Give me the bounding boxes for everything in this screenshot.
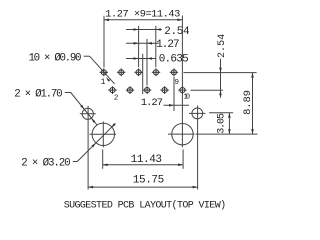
svg-text:1.27 ×9=11.43: 1.27 ×9=11.43 bbox=[105, 9, 180, 21]
svg-text:11.43: 11.43 bbox=[131, 154, 162, 166]
svg-text:10: 10 bbox=[183, 94, 190, 102]
svg-text:SUGGESTED PCB LAYOUT(TOP VIEW): SUGGESTED PCB LAYOUT(TOP VIEW) bbox=[64, 200, 226, 212]
svg-text:1.27: 1.27 bbox=[141, 97, 163, 109]
svg-text:0.635: 0.635 bbox=[159, 53, 189, 65]
svg-text:1: 1 bbox=[101, 78, 106, 87]
svg-text:2 × Ø1.70: 2 × Ø1.70 bbox=[14, 88, 62, 100]
svg-text:10 × Ø0.90: 10 × Ø0.90 bbox=[29, 53, 82, 65]
svg-text:1.27: 1.27 bbox=[156, 39, 179, 51]
svg-text:2.54: 2.54 bbox=[217, 34, 228, 58]
svg-text:3.05: 3.05 bbox=[217, 113, 228, 134]
svg-text:2 × Ø3.20: 2 × Ø3.20 bbox=[21, 157, 70, 169]
svg-text:2: 2 bbox=[114, 94, 119, 102]
svg-text:15.75: 15.75 bbox=[133, 174, 164, 186]
svg-text:9: 9 bbox=[175, 79, 180, 87]
svg-text:8.89: 8.89 bbox=[242, 90, 254, 115]
svg-text:2.54: 2.54 bbox=[164, 26, 190, 38]
